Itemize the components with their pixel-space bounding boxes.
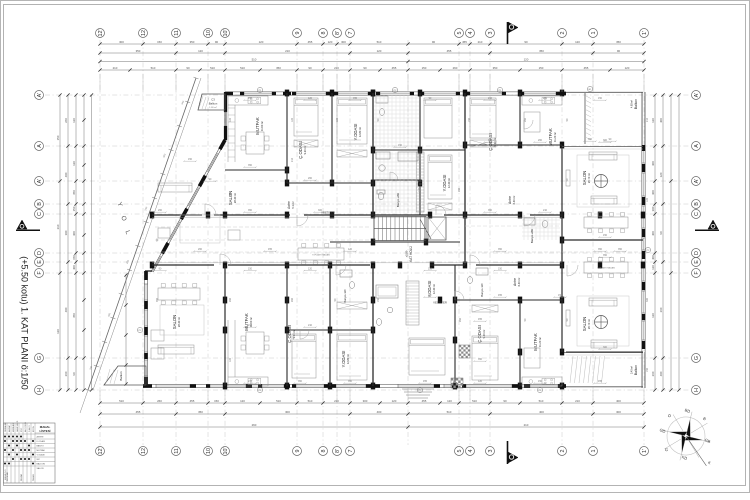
bathroom BR small: [476, 268, 488, 275]
svg-text:300: 300: [341, 40, 346, 44]
legend table mahal listesi: [4, 423, 56, 483]
svg-text:300: 300: [616, 410, 621, 414]
svg-text:Antre: Antre: [513, 278, 517, 286]
svg-text:150: 150: [72, 255, 76, 260]
door arcs: [205, 120, 578, 339]
svg-text:210: 210: [308, 324, 313, 327]
svg-text:D: D: [37, 251, 43, 255]
svg-text:DUVAR: DUVAR: [20, 473, 23, 481]
shaft checker 1: [459, 345, 470, 358]
svg-text:260: 260: [308, 177, 313, 180]
kitchen table BR: [524, 348, 540, 368]
svg-text:H: H: [37, 388, 43, 392]
svg-text:120: 120: [651, 118, 655, 123]
exterior wall top windows: [244, 92, 272, 95]
svg-text:B: B: [37, 202, 43, 206]
svg-text:90: 90: [524, 40, 528, 44]
svg-text:455: 455: [447, 49, 452, 53]
left dimension column lines: [59, 95, 61, 390]
svg-text:90: 90: [659, 231, 663, 235]
svg-text:10': 10': [223, 447, 229, 454]
svg-text:1': 1': [642, 449, 648, 453]
svg-text:S.ALCI: S.ALCI: [28, 425, 31, 432]
exterior wall left upper: [223, 92, 225, 140]
svg-text:350: 350: [136, 49, 141, 53]
bottom dimension line row 1: [100, 402, 644, 404]
street boundary second diagonal: [93, 78, 201, 390]
svg-text:260: 260: [459, 317, 462, 322]
dining table salon TR: [584, 217, 628, 228]
svg-text:90: 90: [186, 66, 190, 70]
svg-text:260: 260: [198, 248, 203, 251]
bed codasi TL: [294, 98, 318, 136]
section marker right: [708, 220, 718, 229]
svg-text:120: 120: [229, 117, 232, 122]
svg-text:120: 120: [625, 66, 630, 70]
svg-text:150: 150: [428, 268, 433, 271]
svg-text:TAVAN: TAVAN: [32, 474, 35, 481]
svg-text:9: 9: [295, 450, 301, 453]
svg-text:2: 2: [560, 32, 566, 35]
svg-text:300: 300: [603, 346, 608, 349]
interior wall center bath split: [373, 179, 420, 181]
stair arrow: [420, 219, 431, 239]
svg-text:260: 260: [659, 307, 663, 312]
svg-text:11.60 m²: 11.60 m²: [260, 121, 264, 131]
svg-text:150: 150: [603, 234, 608, 237]
svg-text:4: 4: [468, 32, 474, 35]
svg-text:BALKON: BALKON: [37, 463, 46, 466]
svg-text:210: 210: [285, 49, 290, 53]
interior wall BR yodasi right: [454, 265, 456, 386]
svg-text:350: 350: [598, 248, 603, 251]
svg-text:3.40 m²: 3.40 m²: [631, 366, 634, 374]
top dimension line row 2: [100, 52, 644, 54]
kitchen counter BR: [522, 377, 562, 386]
svg-text:260: 260: [453, 66, 458, 70]
exterior wall bottom baseline: [143, 383, 566, 385]
balcony top-left C3: [198, 94, 225, 110]
svg-text:SALON: SALON: [582, 317, 587, 332]
svg-text:4.80 m²: 4.80 m²: [631, 100, 634, 108]
svg-text:510: 510: [240, 66, 245, 70]
svg-text:350: 350: [488, 209, 493, 212]
section flag top: [507, 22, 509, 44]
corridor wall inner lines: [152, 216, 562, 218]
svg-text:9.20 m²: 9.20 m²: [482, 329, 486, 338]
svg-text:Banyo+Wc: Banyo+Wc: [480, 283, 484, 297]
wardrobe TC: [428, 203, 452, 210]
kitchen counter TR: [522, 96, 562, 105]
svg-text:B: B: [694, 202, 700, 206]
grid axes vertical dashed lines: [100, 40, 644, 445]
svg-text:MUTFAK: MUTFAK: [548, 128, 553, 146]
svg-text:260: 260: [458, 187, 461, 192]
interior wall BL salon right: [224, 265, 226, 386]
svg-text:90: 90: [72, 372, 76, 376]
interior wall BL vertical 2: [286, 265, 288, 386]
svg-text:350: 350: [276, 66, 281, 70]
svg-text:300: 300: [119, 40, 124, 44]
svg-text:150: 150: [56, 135, 60, 140]
svg-text:210: 210: [291, 157, 294, 162]
svg-text:MUTFAK: MUTFAK: [37, 449, 46, 452]
right dimension column lines: [654, 95, 656, 390]
svg-text:350: 350: [190, 40, 195, 44]
svg-text:350: 350: [539, 49, 544, 53]
interior wall apt divider bottom: [372, 265, 374, 386]
svg-text:90: 90: [215, 40, 219, 44]
svg-text:455: 455: [598, 380, 603, 383]
street lower diagonal continuation: [80, 390, 88, 413]
bed yodasi TC: [428, 155, 452, 199]
svg-text:150: 150: [377, 297, 380, 302]
section marker left: [17, 220, 27, 229]
svg-text:350: 350: [488, 139, 493, 142]
svg-text:350: 350: [298, 380, 303, 383]
interior wall BL vertical 3: [329, 265, 331, 386]
rug salon TL: [180, 215, 220, 243]
svg-text:120: 120: [308, 268, 313, 271]
svg-text:455: 455: [268, 248, 273, 251]
svg-text:120: 120: [348, 248, 353, 251]
bed yodasi BR: [409, 338, 445, 375]
svg-text:8': 8': [335, 449, 341, 453]
svg-text:Antre: Antre: [287, 201, 291, 209]
svg-text:1.80 m²: 1.80 m²: [209, 106, 217, 109]
section flag bottom: [507, 441, 509, 464]
svg-text:120: 120: [291, 117, 294, 122]
svg-text:150: 150: [539, 66, 544, 70]
svg-text:1': 1': [642, 31, 648, 35]
svg-text:350: 350: [198, 410, 203, 414]
svg-text:300: 300: [318, 209, 323, 212]
svg-text:150: 150: [498, 268, 503, 271]
svg-text:8: 8: [321, 32, 327, 35]
svg-text:510: 510: [447, 410, 452, 414]
svg-text:ALCI SIVA: ALCI SIVA: [24, 422, 27, 432]
corridor dashed ceiling line: [155, 226, 370, 228]
svg-text:350: 350: [348, 380, 353, 383]
svg-text:260: 260: [651, 371, 655, 376]
svg-text:Y.ODASI: Y.ODASI: [353, 124, 358, 141]
right axis circles: [692, 91, 701, 100]
svg-text:350: 350: [72, 313, 76, 318]
svg-text:400: 400: [616, 399, 621, 403]
svg-text:SERAMIK: SERAMIK: [4, 422, 7, 432]
exterior wall left lower: [145, 270, 152, 272]
entrance steps bottom: [402, 389, 434, 398]
svg-text:455: 455: [478, 318, 483, 321]
center top small bath fixtures: [376, 96, 388, 103]
svg-text:12': 12': [98, 29, 104, 36]
svg-text:260: 260: [158, 209, 163, 212]
svg-text:28.40 m²: 28.40 m²: [177, 317, 181, 327]
svg-text:Balkon: Balkon: [209, 102, 218, 106]
svg-text:BANYO: BANYO: [37, 445, 45, 448]
window tags: [257, 87, 262, 92]
svg-text:2: 2: [560, 450, 566, 453]
svg-text:120: 120: [478, 380, 483, 383]
svg-text:90: 90: [432, 40, 436, 44]
svg-text:HALIFLEKS: HALIFLEKS: [16, 420, 19, 432]
sofa salon TR: [589, 152, 617, 160]
svg-text:455: 455: [190, 399, 195, 403]
svg-text:300: 300: [651, 206, 655, 211]
bottom dimension line row 2: [100, 413, 644, 415]
svg-text:G: G: [694, 356, 700, 360]
svg-text:A': A': [37, 179, 43, 184]
top dimension line row 1: [100, 43, 644, 45]
svg-text:6.40 m²: 6.40 m²: [512, 195, 516, 204]
rug salon BL: [160, 305, 204, 335]
legend row labels: [37, 436, 46, 471]
svg-text:Y.ODASI: Y.ODASI: [341, 351, 346, 368]
interior wall TL vertical 2: [331, 93, 333, 183]
svg-text:400: 400: [651, 231, 655, 236]
svg-text:400: 400: [377, 410, 382, 414]
svg-text:H: H: [694, 388, 700, 392]
svg-text:150: 150: [468, 117, 471, 122]
svg-text:210: 210: [248, 380, 253, 383]
rug salon TR: [577, 155, 629, 207]
svg-text:300: 300: [72, 231, 76, 236]
svg-text:300: 300: [64, 230, 68, 235]
svg-text:150: 150: [248, 97, 253, 100]
exterior wall right upper parapet: [566, 91, 643, 93]
svg-text:300: 300: [651, 161, 655, 166]
exterior wall top piers: [225, 92, 233, 95]
tv salon BR: [566, 310, 570, 326]
svg-text:12: 12: [141, 448, 147, 454]
svg-text:(+5.50 kotu) 1. KAT PLANI ö:: (+5.50 kotu) 1. KAT PLANI ö:1/50: [20, 256, 30, 390]
bathroom BR column tub: [376, 285, 398, 298]
svg-text:9: 9: [295, 32, 301, 35]
left axis circles: [35, 91, 44, 100]
interior wall center top block: [373, 149, 465, 151]
svg-text:5: 5: [457, 32, 463, 35]
staircase: [374, 217, 426, 241]
structural columns: [223, 212, 227, 219]
balcony top-right: [584, 93, 586, 144]
svg-text:260: 260: [157, 399, 162, 403]
bed codasi BR: [472, 336, 498, 380]
svg-text:Balkon: Balkon: [634, 365, 638, 375]
balcony bottom-right: [562, 352, 643, 354]
svg-text:210: 210: [248, 324, 253, 327]
tv salon TR: [566, 170, 570, 186]
svg-text:260: 260: [64, 118, 68, 123]
svg-text:455: 455: [353, 97, 358, 100]
street boundary diagonal line: [88, 78, 196, 390]
svg-text:G: G: [37, 356, 43, 360]
svg-text:5: 5: [457, 450, 463, 453]
svg-text:350: 350: [478, 358, 483, 361]
legend side rotated text: [4, 469, 7, 480]
svg-text:12.80 m²: 12.80 m²: [358, 127, 362, 137]
interior wall TL vertical 1: [286, 93, 288, 183]
svg-text:SALON: SALON: [37, 467, 45, 470]
svg-text:350: 350: [603, 254, 608, 257]
svg-text:120: 120: [524, 58, 529, 62]
svg-text:400: 400: [64, 307, 68, 312]
stair south wall: [330, 241, 460, 243]
salon TR bottom wall: [562, 239, 643, 241]
svg-text:120: 120: [651, 265, 655, 270]
svg-text:400: 400: [651, 255, 655, 260]
svg-text:C: C: [37, 212, 43, 216]
svg-text:455: 455: [136, 410, 141, 414]
svg-text:Y.ODASI: Y.ODASI: [442, 175, 447, 192]
kitchen counter TL: [228, 96, 268, 105]
svg-text:12': 12': [98, 447, 104, 454]
svg-text:K.ODASI: K.ODASI: [37, 440, 46, 443]
bed yodasi BL: [337, 334, 367, 380]
svg-text:11: 11: [174, 448, 180, 454]
svg-text:KAT HOLÜ: KAT HOLÜ: [409, 245, 413, 261]
svg-text:AHSAP: AHSAP: [8, 424, 11, 432]
svg-text:10': 10': [223, 29, 229, 36]
svg-text:120: 120: [308, 97, 313, 100]
kitchen table TL: [246, 132, 264, 154]
svg-text:150: 150: [558, 294, 563, 297]
svg-text:300: 300: [646, 297, 649, 302]
svg-text:WC: WC: [37, 459, 41, 461]
svg-text:12.40 m²: 12.40 m²: [432, 284, 436, 294]
svg-text:150: 150: [422, 66, 427, 70]
dining table salon BL: [158, 288, 200, 300]
svg-text:SALON: SALON: [582, 171, 587, 186]
svg-text:10: 10: [206, 30, 212, 36]
balcony bottom-left: [104, 366, 146, 385]
exterior wall right: [641, 92, 643, 388]
svg-text:90: 90: [617, 49, 621, 53]
svg-text:Ç.ODASI: Ç.ODASI: [287, 325, 292, 343]
svg-text:11.20 m²: 11.20 m²: [553, 132, 557, 142]
dining table salon TL: [298, 248, 344, 260]
compass rose: [656, 406, 719, 467]
svg-text:210: 210: [646, 117, 649, 122]
svg-text:120: 120: [198, 49, 203, 53]
bathroom TL fixtures: [376, 152, 390, 159]
interior wall BR salon left: [561, 240, 563, 352]
bed yodasi TL: [337, 98, 367, 144]
svg-text:1: 1: [591, 450, 597, 453]
svg-text:28.40 m²: 28.40 m²: [233, 193, 237, 203]
svg-text:8': 8': [335, 31, 341, 35]
svg-text:120: 120: [659, 172, 663, 177]
svg-text:120: 120: [392, 399, 397, 403]
svg-text:210: 210: [478, 40, 483, 44]
svg-text:120: 120: [240, 399, 245, 403]
svg-text:210: 210: [113, 66, 118, 70]
svg-text:350: 350: [588, 138, 593, 141]
sofa salon BR: [589, 298, 617, 306]
interior wall BR balcony top: [566, 351, 643, 353]
wardrobe TL2: [294, 140, 318, 147]
svg-text:455: 455: [584, 66, 589, 70]
svg-text:400: 400: [659, 118, 663, 123]
sofa salon TL: [158, 183, 192, 192]
svg-text:26.70 m²: 26.70 m²: [587, 173, 591, 183]
svg-text:210: 210: [56, 224, 60, 229]
wardrobe TL: [337, 150, 367, 157]
svg-text:LİSTESİ: LİSTESİ: [40, 429, 51, 433]
svg-text:12.40 m²: 12.40 m²: [447, 178, 451, 188]
svg-text:11.20 m²: 11.20 m²: [538, 337, 542, 347]
svg-text:Ç.ODASI: Ç.ODASI: [298, 141, 303, 159]
sofa salon BR 2: [591, 340, 617, 348]
svg-text:10: 10: [206, 448, 212, 454]
svg-text:MERMER: MERMER: [13, 422, 15, 432]
top axis circles: [96, 29, 105, 38]
wardrobe BL: [337, 302, 367, 309]
svg-text:350: 350: [618, 248, 623, 251]
bottom axis circles: [96, 447, 105, 456]
svg-text:120: 120: [229, 357, 232, 362]
interior wall mutfak TL bottom: [225, 169, 287, 171]
bathroom BL small: [340, 270, 352, 277]
svg-text:400: 400: [539, 410, 544, 414]
armchairs salon TL: [158, 228, 170, 238]
svg-text:6.40 m²: 6.40 m²: [517, 277, 521, 286]
svg-text:510: 510: [151, 66, 156, 70]
round table salon BR: [595, 316, 608, 329]
svg-text:150: 150: [188, 158, 193, 161]
interior wall center bath: [419, 93, 421, 215]
svg-text:210: 210: [334, 399, 339, 403]
svg-text:SALON: SALON: [172, 315, 177, 330]
svg-text:1: 1: [591, 32, 597, 35]
round table salon TR: [595, 175, 608, 188]
svg-text:455: 455: [392, 66, 397, 70]
svg-text:455: 455: [498, 294, 503, 297]
svg-text:400: 400: [72, 265, 76, 270]
svg-text:8: 8: [321, 450, 327, 453]
left inner dimension line: [125, 274, 127, 385]
shaft checker 2: [451, 378, 463, 388]
svg-text:PVC: PVC: [21, 427, 23, 432]
svg-text:90: 90: [308, 66, 312, 70]
svg-text:A: A: [37, 144, 43, 148]
svg-text:120: 120: [575, 40, 580, 44]
svg-text:Antre: Antre: [508, 196, 512, 204]
interior wall TR salon left: [561, 145, 563, 240]
svg-text:120: 120: [377, 49, 382, 53]
exterior wall bottom balcony parapet: [566, 386, 643, 388]
kitchen table BL: [246, 332, 264, 354]
svg-text:260: 260: [64, 371, 68, 376]
svg-text:510: 510: [472, 399, 477, 403]
svg-text:Balkon: Balkon: [634, 99, 638, 109]
svg-text:510: 510: [252, 58, 257, 62]
bathroom TR fixtures: [524, 218, 535, 225]
svg-text:TOPLANTI MASASI: TOPLANTI MASASI: [312, 254, 330, 257]
svg-text:120: 120: [259, 40, 264, 44]
svg-text:210: 210: [334, 66, 339, 70]
svg-text:150: 150: [646, 367, 649, 372]
svg-text:A': A': [694, 93, 700, 98]
svg-text:90: 90: [363, 66, 367, 70]
svg-text:Balkon: Balkon: [119, 371, 123, 381]
street diagonal tick marks: [86, 77, 199, 391]
interior wall BL horizontal: [287, 329, 373, 331]
svg-text:C: C: [694, 212, 700, 216]
svg-text:120: 120: [72, 118, 76, 123]
bed codasi TR: [470, 98, 496, 138]
sofa salon TR 2: [591, 196, 617, 204]
svg-text:+5.80: +5.80: [405, 250, 409, 257]
